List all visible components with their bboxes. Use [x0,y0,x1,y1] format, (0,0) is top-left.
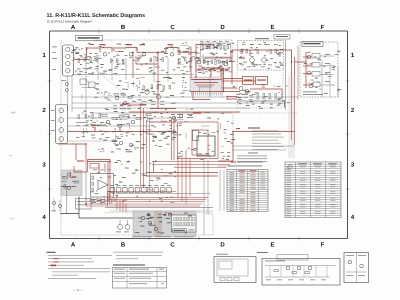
fine print texture row2 [76,111,177,139]
dashed tuner boundary [233,113,298,158]
notes heading [47,252,56,253]
small parts row above ground bus [90,199,116,204]
wire: ground bus bottom-left [60,197,176,219]
electrolytic caps C501/C502 [116,220,130,232]
wire: red through front end [232,50,292,62]
svg-text:F: F [321,24,325,31]
fine print texture front end [239,42,284,70]
power block parts [135,213,196,234]
red marks near power block [168,214,192,217]
chassis drawing box [214,254,256,283]
fine print texture interstage [98,138,147,152]
net label box (red) amp input [90,164,99,169]
frame border lines [50,31,348,239]
svg-text:A: A [71,242,76,249]
transistor Q301 [250,58,255,63]
shading right riser [288,76,295,158]
headphone amp block U301 [91,174,114,198]
wire: red fan bus to power block [86,192,208,213]
wire: faint D2 horizontals [204,146,294,235]
grid column letters bottom [71,242,325,249]
tone control cluster Q105/Q106 [113,94,133,110]
net label box FM (red) [256,77,268,85]
svg-text:F: F [321,242,325,249]
TP table grid [227,170,268,212]
frame tick marks [48,29,350,241]
wire: red links U201 to AM/FM label boxes [193,79,256,101]
jack J101 [80,79,87,85]
connector CN102 [51,105,68,144]
amp internals [86,163,111,203]
AM tuner section dashed outline [237,72,283,108]
IC X202 [193,131,199,141]
connector CN101 [52,45,74,92]
relay driver box [197,136,215,156]
resistor group R310-R313 [256,94,278,100]
svg-text:A: A [71,24,76,31]
wire: top chain ground bus [72,74,194,76]
svg-text:D: D [220,24,225,31]
wire: misc short connections [81,45,228,141]
wire: row2 black pair [68,118,176,126]
voltage table grid [285,162,341,218]
wire: black trunk to E column [237,101,285,108]
fine print texture detector band [233,85,291,109]
board name label DWX-1021 [76,35,103,40]
fine print texture amp area [92,160,177,204]
label box top-right MAIN [274,35,290,40]
front end parts [239,44,279,67]
wire: black vertical companion [149,118,151,190]
transistor Q102 [129,53,133,57]
connector module CN902 (dashed) [300,42,338,97]
caption key wiring [257,251,268,254]
wire: red risers to power connector [292,52,307,145]
power supply module (shaded) [61,170,82,214]
main voltage chart table [285,162,341,218]
voltage table header [288,163,337,169]
transistor Q103 [142,53,146,57]
wire: red vertical bundle B3 [141,104,147,188]
fine print texture mid band [94,77,193,110]
svg-text:B: B [121,24,126,31]
IC U201 pins [192,92,221,96]
svg-text:B: B [121,242,126,249]
svg-text:D: D [220,242,225,249]
printed board list entries [114,269,164,284]
wire: connector drop [67,76,69,110]
wire: red tape line [68,105,177,132]
muting cluster Q107/Q108 [142,85,171,105]
aux small schematic box [344,253,369,283]
transistor Q302 [262,58,267,63]
wire: red IF routing [196,44,232,85]
red part labels row2 [122,104,128,105]
coupling caps row2 [102,114,151,120]
wire: red line through resistor row [108,191,176,193]
grid row numbers [42,52,355,221]
parts below power module [51,198,91,212]
IF amp cluster around IC X201 [197,41,231,72]
net label box AM (red) [243,77,254,85]
wire: red detector route [226,89,282,99]
svg-text:— 11 —: — 11 — [73,288,84,292]
printed board list table [113,268,167,289]
detector cluster Q303/Q304 [236,87,256,98]
grid column letters top [71,24,325,31]
svg-text:C: C [170,242,175,249]
wire: red verticals below control block [178,150,190,204]
wire: red bus exit lines below control block [152,162,233,173]
control block labels [172,113,201,120]
caption under power block [132,236,194,239]
svg-text:11. R-K11/R-K11L Schematic D: 11. R-K11/R-K11L Schematic Diagrams [47,13,145,19]
red label power module [77,161,84,162]
jack J102 [89,82,96,88]
test point voltage table [227,162,268,212]
resistor array R401-R410 [110,185,171,192]
dotted alignment diagonals [73,67,134,105]
power amp block (shaded cluster) [133,211,196,237]
resistor group R101-R114 top chain [78,57,192,63]
wire: red amp loop [88,160,111,201]
extra IF cluster density [197,43,234,71]
IC U201 (shaded, red wiring inside) [190,48,240,92]
wire: red mute line [150,78,176,109]
wire: long red feed y112 [129,111,240,113]
fine print texture cn area [304,51,341,94]
tape EQ cluster [76,114,135,133]
wire: red bus pair to amp [146,173,218,177]
FM front end module (dashed) [238,41,284,71]
transistor Q101 [103,53,107,57]
key wiring schematic box [262,255,340,286]
svg-text:C: C [170,24,175,31]
wire: vertical interconnects [72,56,338,118]
fine print texture top chain [71,42,235,74]
svg-text:E: E [270,242,274,249]
svg-text:E: E [270,24,274,31]
svg-text:11-(1) R-K11 Schematic Diagram: 11-(1) R-K11 Schematic Diagram [47,20,93,24]
wire: red branch drops top chain [133,52,158,78]
wire: red link to right column [218,132,295,162]
voltage table entries [287,167,336,217]
transistor Q104 [170,53,174,57]
op-amp U301 triangle [98,180,108,190]
wire: main input trace (red) [74,48,196,60]
TP table entries [230,170,266,210]
legend notes block [236,128,284,162]
notes body lines [48,255,112,279]
top chain value labels [77,57,195,71]
wire: CN902 leads [320,56,334,85]
IC X501 in power block [172,215,197,232]
wire: black bus companions [105,194,213,213]
wire: red feed into power module [58,144,87,178]
fine print texture control [176,113,235,159]
wire: long horizontal interconnects [72,97,298,113]
margin smudges [8,112,16,220]
CN902 internal parts [303,54,330,95]
system control block (nested red outlines) [172,118,219,160]
main PCB dashed outline [61,40,232,235]
notes second column [113,252,163,259]
wire: red CN902 links [303,57,312,85]
red part labels top chain [100,44,106,45]
wire: vertical black risers right [286,40,299,110]
printed board list title [113,265,145,266]
interstage parts Q109/Q110 [68,140,139,150]
